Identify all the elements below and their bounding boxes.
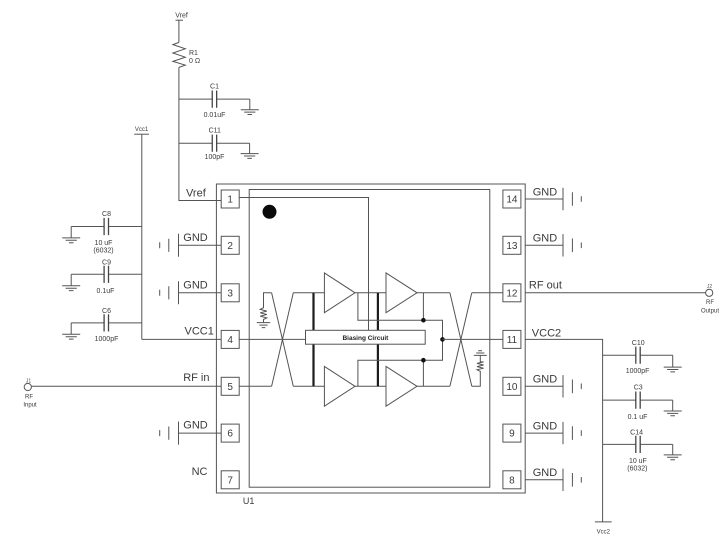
wire balun to amp A1 bbox=[293, 292, 324, 294]
ground flipped (balun tap) bbox=[474, 351, 487, 356]
svg-text:C9: C9 bbox=[102, 260, 111, 267]
svg-text:GND: GND bbox=[183, 279, 208, 291]
svg-text:Biasing Circuit: Biasing Circuit bbox=[342, 335, 389, 342]
svg-text:C11: C11 bbox=[209, 127, 221, 134]
svg-text:8: 8 bbox=[509, 475, 515, 486]
svg-text:C14: C14 bbox=[630, 430, 643, 437]
svg-text:9: 9 bbox=[509, 429, 515, 440]
svg-text:GND: GND bbox=[183, 420, 208, 432]
label GND (pin 10) bbox=[525, 374, 581, 398]
svg-text:C10: C10 bbox=[632, 340, 645, 347]
svg-text:R1: R1 bbox=[189, 50, 198, 57]
svg-text:1000pF: 1000pF bbox=[626, 368, 650, 375]
svg-text:NC: NC bbox=[192, 466, 208, 478]
bias feed bar (A4 input) bbox=[377, 344, 379, 386]
wire node B to pin 11 bbox=[443, 338, 503, 340]
input balun X (left) bbox=[272, 293, 294, 387]
svg-text:0 Ω: 0 Ω bbox=[189, 58, 200, 65]
pin 8 box bbox=[503, 471, 521, 489]
svg-text:Vcc1: Vcc1 bbox=[135, 127, 149, 133]
junction node C bbox=[421, 358, 426, 363]
pin 5 box bbox=[221, 377, 239, 395]
wire A4 to output balun bbox=[417, 385, 450, 387]
pin 2 box bbox=[221, 236, 239, 254]
inductor L-out (balun tap) bbox=[472, 356, 484, 387]
pin 1 index dot bbox=[263, 205, 277, 219]
terminal Vcc1 bbox=[134, 127, 149, 134]
bias feed bar (A1 input) bbox=[312, 293, 314, 331]
svg-text:6: 6 bbox=[227, 429, 233, 440]
svg-text:Vcc2: Vcc2 bbox=[597, 530, 611, 536]
pin 1 box bbox=[221, 190, 239, 208]
svg-text:1: 1 bbox=[227, 195, 233, 206]
wire RF in to pin 5 bbox=[31, 385, 221, 387]
svg-text:0.1uF: 0.1uF bbox=[97, 288, 115, 295]
ground (C8) bbox=[62, 227, 80, 243]
svg-text:3: 3 bbox=[227, 288, 233, 299]
label GND (pin 9) bbox=[525, 420, 581, 444]
svg-text:(6032): (6032) bbox=[627, 465, 647, 472]
wire VCC1 to pin 4 bbox=[142, 338, 221, 340]
svg-text:GND: GND bbox=[533, 467, 558, 479]
wire A2 output tap bbox=[422, 293, 424, 320]
wire pin 5 stub to balun bbox=[239, 385, 271, 387]
terminal Vref (top) bbox=[175, 13, 188, 21]
capacitor C14 bbox=[603, 430, 673, 473]
wire balun to amp A3 bbox=[293, 385, 324, 387]
wire Vcc1 rail bbox=[141, 134, 143, 339]
svg-text:100pF: 100pF bbox=[205, 154, 225, 161]
capacitor C1 bbox=[179, 84, 250, 119]
pin 7 box bbox=[221, 471, 239, 489]
pin 10 box bbox=[503, 377, 521, 395]
bias feed bar (A2 input) bbox=[377, 293, 379, 331]
capacitor C8 bbox=[71, 211, 142, 255]
label GND (pin 2) bbox=[160, 232, 222, 257]
pin 13 box bbox=[503, 236, 521, 254]
svg-text:C3: C3 bbox=[634, 385, 643, 392]
svg-text:C6: C6 bbox=[102, 308, 111, 315]
svg-text:U1: U1 bbox=[243, 496, 255, 506]
wire A1 to A2 bbox=[355, 292, 386, 294]
svg-text:C1: C1 bbox=[210, 84, 219, 91]
ground (C11) bbox=[241, 143, 259, 158]
svg-text:14: 14 bbox=[506, 195, 518, 206]
svg-text:RF out: RF out bbox=[529, 279, 562, 291]
output balun X (right) bbox=[450, 293, 472, 387]
svg-text:0.01uF: 0.01uF bbox=[204, 112, 226, 119]
terminal Vcc2 (bottom) bbox=[595, 522, 612, 536]
svg-text:10: 10 bbox=[506, 382, 518, 393]
wire pin 12 to RF output bbox=[525, 292, 705, 294]
svg-text:4: 4 bbox=[227, 335, 233, 346]
svg-text:GND: GND bbox=[533, 420, 558, 432]
svg-text:5: 5 bbox=[227, 382, 233, 393]
label GND (pin 6) bbox=[160, 420, 222, 445]
label GND (pin 8) bbox=[525, 467, 581, 491]
svg-text:Input: Input bbox=[23, 402, 37, 408]
svg-text:10 uF: 10 uF bbox=[629, 458, 647, 465]
ground (C9) bbox=[62, 274, 80, 290]
amplifier stage A3 bbox=[324, 366, 355, 406]
ground (C10) bbox=[664, 355, 682, 372]
svg-text:13: 13 bbox=[506, 241, 518, 252]
svg-text:RF in: RF in bbox=[183, 372, 209, 384]
pin 11 box bbox=[503, 330, 521, 348]
pin 3 box bbox=[221, 284, 239, 302]
svg-text:0.1 uF: 0.1 uF bbox=[628, 414, 648, 421]
wire pin 11 VCC2 rail bbox=[525, 339, 602, 522]
ground (C3) bbox=[664, 400, 682, 416]
svg-text:VCC1: VCC1 bbox=[185, 325, 214, 337]
amplifier stage A2 bbox=[386, 273, 417, 313]
capacitor C10 bbox=[603, 340, 673, 375]
svg-text:Output: Output bbox=[701, 308, 719, 314]
IC U1 body bbox=[249, 190, 490, 488]
svg-text:RF: RF bbox=[25, 395, 33, 401]
amplifier stage A4 bbox=[386, 366, 417, 406]
label GND (pin 13) bbox=[525, 233, 581, 257]
svg-text:1000pF: 1000pF bbox=[95, 336, 119, 343]
pin 14 box bbox=[503, 190, 521, 208]
svg-text:RF: RF bbox=[706, 300, 714, 306]
IC U1 package outline bbox=[216, 184, 525, 493]
wire Vref terminal to R1 bbox=[178, 20, 180, 42]
capacitor C11 bbox=[179, 127, 250, 161]
svg-text:2: 2 bbox=[227, 241, 233, 252]
label GND (pin 3) bbox=[160, 279, 222, 304]
svg-text:(6032): (6032) bbox=[93, 248, 113, 255]
svg-text:GND: GND bbox=[183, 232, 208, 244]
junction node A bbox=[421, 318, 426, 323]
amplifier stage A1 bbox=[324, 273, 355, 313]
pin 9 box bbox=[503, 424, 521, 442]
inductor L-in (balun tap) bbox=[260, 293, 271, 323]
svg-text:10 uF: 10 uF bbox=[95, 240, 113, 247]
svg-text:GND: GND bbox=[533, 186, 558, 198]
wire A1 output feedback loop bbox=[358, 293, 443, 387]
resistor R1 bbox=[173, 42, 200, 67]
ground (C14) bbox=[664, 444, 682, 459]
wire balun to pin 12 bbox=[472, 292, 503, 294]
svg-text:Vref: Vref bbox=[186, 188, 207, 200]
capacitor C3 bbox=[603, 385, 673, 421]
pin 6 box bbox=[221, 424, 239, 442]
label GND (pin 14) bbox=[525, 186, 581, 210]
terminal RF Input J1 bbox=[23, 379, 37, 409]
bias feed bar (A3 input) bbox=[312, 344, 314, 386]
svg-text:12: 12 bbox=[506, 288, 518, 299]
wire pin 1 to bias circuit bbox=[239, 198, 368, 331]
svg-text:11: 11 bbox=[507, 335, 518, 346]
wire pin 4 to biasing circuit bbox=[239, 338, 305, 340]
junction node B bbox=[440, 337, 445, 342]
ground (C1) bbox=[241, 99, 259, 114]
wire R1 to pin1 corner bbox=[179, 67, 221, 200]
svg-text:C8: C8 bbox=[102, 211, 111, 218]
svg-text:GND: GND bbox=[533, 374, 558, 386]
biasing circuit block bbox=[306, 330, 426, 344]
svg-text:7: 7 bbox=[227, 475, 233, 486]
wire A4 output tap bbox=[422, 360, 424, 386]
ground (balun tap) bbox=[257, 323, 270, 328]
terminal RF Output J2 bbox=[701, 284, 719, 314]
svg-text:VCC2: VCC2 bbox=[532, 328, 561, 340]
svg-text:Vref: Vref bbox=[175, 13, 188, 20]
svg-text:GND: GND bbox=[533, 233, 558, 245]
capacitor C6 bbox=[71, 308, 142, 343]
pin 12 box bbox=[503, 284, 521, 302]
ground (C6) bbox=[62, 323, 80, 339]
wire A2 to output balun bbox=[417, 292, 450, 294]
wire A3 to A4 bbox=[355, 385, 386, 387]
capacitor C9 bbox=[71, 260, 142, 296]
pin 4 box bbox=[221, 330, 239, 348]
